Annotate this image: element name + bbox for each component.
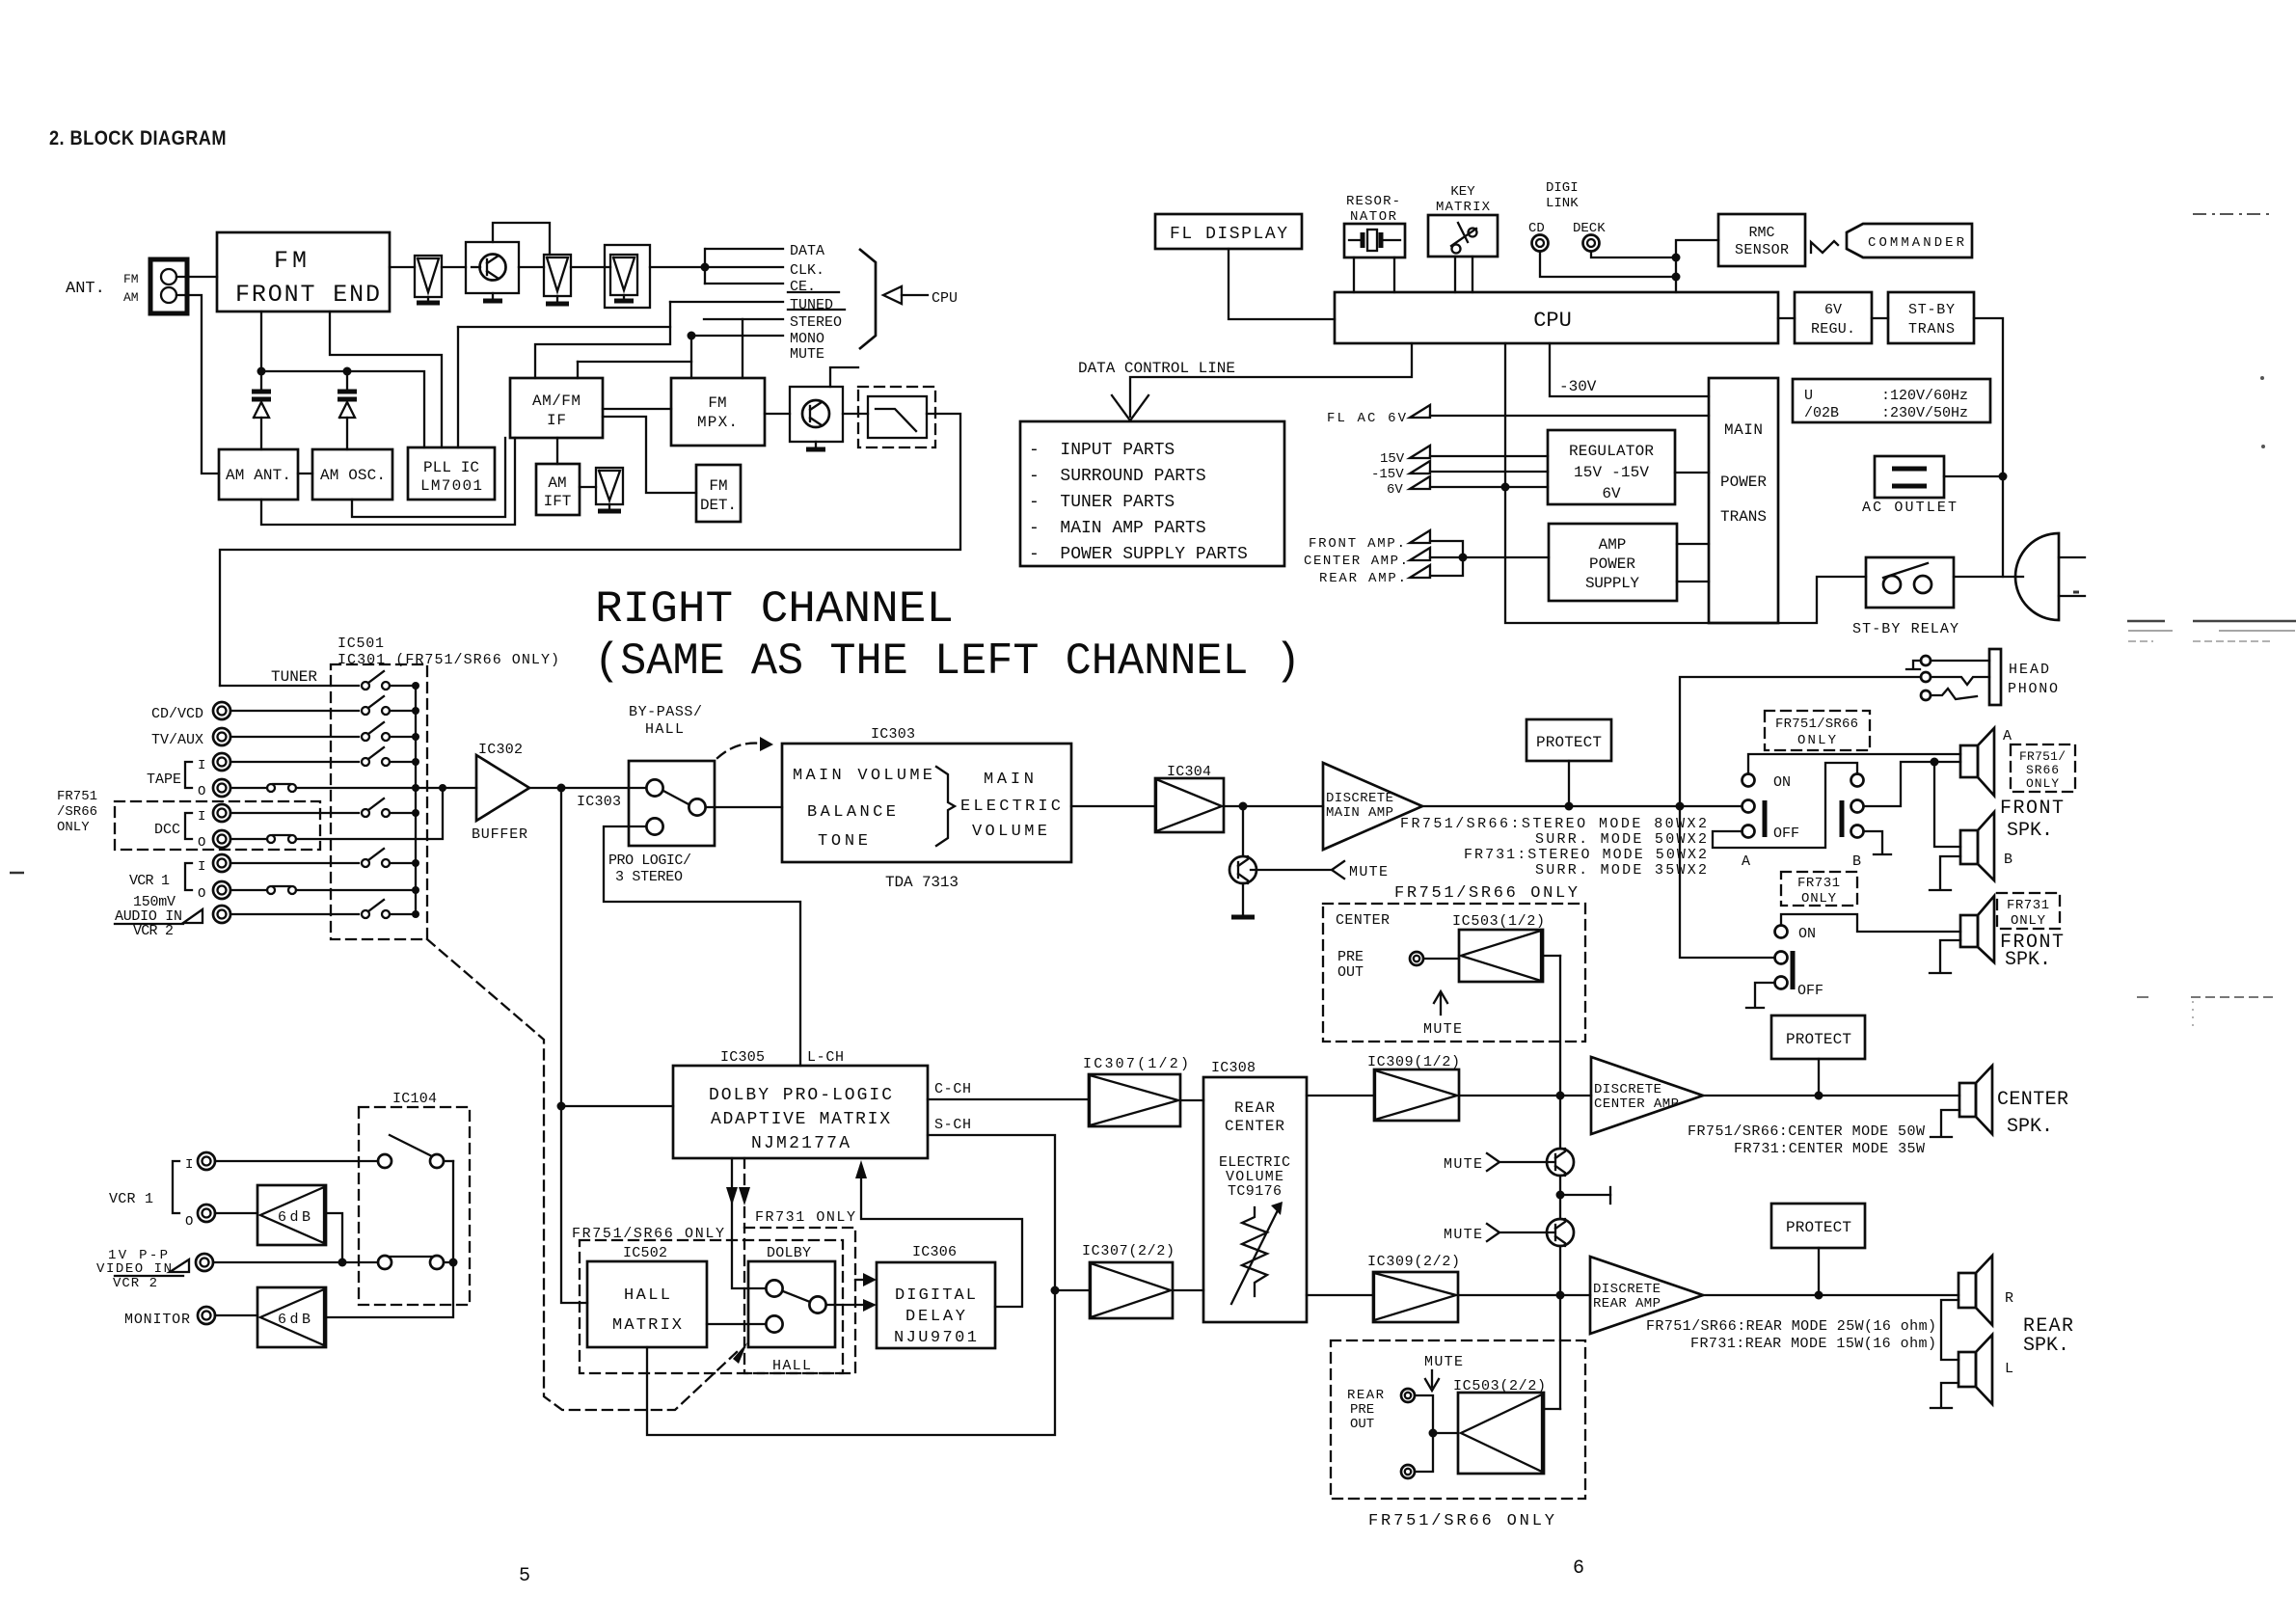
block REGULATOR (1548, 430, 1675, 504)
wire AM ANT to AM OSC link (298, 473, 312, 474)
svg-text:TAPE: TAPE (147, 771, 181, 788)
svg-text:IC305: IC305 (720, 1049, 765, 1066)
varactor D1 (260, 311, 262, 390)
wire vertical DATA-CLK-CE (704, 249, 706, 284)
svg-text:FL DISPLAY: FL DISPLAY (1170, 225, 1287, 244)
svg-text:DOLBY PRO-LOGIC: DOLBY PRO-LOGIC (709, 1086, 892, 1105)
svg-text:IC301 (FR751/SR66 ONLY): IC301 (FR751/SR66 ONLY) (338, 652, 559, 668)
svg-text:PRE: PRE (1337, 949, 1364, 965)
svg-text:CENTER: CENTER (1997, 1089, 2068, 1111)
wire A ON to speaker A (1748, 754, 1960, 773)
svg-text:AMP: AMP (1599, 536, 1627, 554)
antenna connector box (150, 259, 187, 313)
dashed box FR731 (744, 1228, 855, 1373)
ceramic filter F3 (boxed) (605, 245, 650, 308)
wire VCR2 video row (213, 1261, 378, 1263)
svg-text:15V -15V: 15V -15V (1574, 464, 1649, 481)
svg-text:IC307(2/2): IC307(2/2) (1082, 1243, 1175, 1259)
svg-text:MUTE: MUTE (1444, 1227, 1482, 1243)
svg-text:BUFFER: BUFFER (472, 826, 527, 843)
svg-text:ANT.: ANT. (66, 280, 105, 298)
svg-text:FL AC 6V: FL AC 6V (1327, 411, 1407, 426)
wire FR731 ON to speaker (1781, 914, 1960, 932)
svg-text:NATOR: NATOR (1350, 209, 1397, 225)
svg-text:O: O (198, 886, 205, 902)
commander remote (1847, 224, 1972, 257)
svg-text:ONLY: ONLY (1801, 891, 1837, 907)
node video bus junction (338, 1259, 347, 1267)
svg-text:5: 5 (519, 1565, 530, 1587)
block PLL IC LM7001 (408, 447, 495, 500)
wire 6V (1430, 486, 1548, 488)
wire IC303 node down to IC305 and HALL MATRIX (561, 788, 587, 1303)
parts list box (1020, 421, 1284, 566)
svg-text:REAR: REAR (1234, 1099, 1275, 1117)
dashed label box FR731 ONLY (front spk) (1997, 893, 2060, 929)
svg-text:POWER: POWER (1720, 474, 1767, 491)
svg-text:I: I (185, 1157, 193, 1173)
CPU arrow (883, 286, 902, 304)
wire data control line (1130, 343, 1412, 417)
svg-text:IC306: IC306 (912, 1244, 957, 1260)
svg-text:VCR 1: VCR 1 (109, 1191, 153, 1207)
speaker FRONT B (1960, 830, 1978, 864)
wire TUNED stub (670, 301, 783, 303)
svg-text:6dB: 6dB (278, 1209, 311, 1226)
node headphone/front junction (1676, 802, 1685, 811)
svg-text:REGULATOR: REGULATOR (1569, 443, 1654, 460)
switch IC104 upper (378, 1154, 392, 1168)
svg-text:IFT: IFT (544, 493, 572, 510)
svg-text:6: 6 (1573, 1557, 1584, 1580)
svg-text:MAIN: MAIN (1724, 421, 1763, 439)
block AM ANT. (219, 449, 298, 500)
switch IC104 lower (378, 1256, 392, 1269)
switch box BY-PASS/HALL (629, 761, 715, 846)
svg-text:AM: AM (548, 474, 566, 492)
wire MPX to Q2 (765, 413, 790, 415)
svg-text:IC308: IC308 (1211, 1060, 1256, 1076)
svg-text:CENTER: CENTER (1225, 1118, 1284, 1135)
wire VCR1 I video row (215, 1160, 378, 1162)
wire varactor bus to PLL (261, 371, 424, 447)
svg-text:TV/AUX: TV/AUX (151, 732, 203, 748)
svg-text:SENSOR: SENSOR (1735, 242, 1789, 258)
block PROTECT (main) (1526, 719, 1611, 761)
arrowhead data control line (1112, 395, 1148, 420)
svg-text:S-CH: S-CH (934, 1117, 971, 1133)
svg-text:PHONO: PHONO (2008, 681, 2058, 697)
svg-text:FR751/SR66 ONLY: FR751/SR66 ONLY (1394, 884, 1578, 903)
block ST-BY RELAY (1866, 557, 1954, 608)
wire IC303 to IC304 (1071, 805, 1155, 807)
node ac outlet junction (1999, 473, 2008, 481)
dashed wire IC305 to FR731 box (arrow) (743, 1158, 745, 1228)
node MONO junction (688, 332, 696, 340)
svg-text:VCR 1: VCR 1 (129, 873, 170, 889)
resonator X1 box (1344, 224, 1405, 257)
wire R-L speaker link (1941, 1300, 1958, 1360)
wire buffer out (529, 787, 646, 789)
switch DCC I (362, 809, 369, 817)
svg-text:ONLY: ONLY (2011, 913, 2046, 929)
wire IC304 to main amp (1224, 805, 1323, 807)
switch SPEAKERS B (1851, 774, 1864, 787)
svg-text:PROTECT: PROTECT (1786, 1031, 1851, 1048)
svg-text:ST-BY RELAY: ST-BY RELAY (1852, 621, 1958, 637)
svg-text:KEY: KEY (1450, 184, 1475, 200)
wire FM ant to FM FRONT END (176, 276, 217, 278)
wire center amp to speaker (1703, 1095, 1959, 1096)
wire delay feedback to IC305 (arrow) (861, 1178, 1022, 1307)
wire A OFF to B ON (1713, 763, 1857, 848)
key matrix box (1428, 215, 1498, 257)
wire relay to plug (1954, 576, 2023, 578)
transistor mute Q5 (rear) (1547, 1219, 1574, 1246)
block IC308 REAR CENTER ELECTRIC VOLUME TC9176 (1203, 1077, 1307, 1322)
svg-text:6V: 6V (1824, 302, 1842, 318)
label MUTE (main) (1332, 861, 1344, 879)
svg-text:REAR: REAR (1347, 1388, 1385, 1403)
svg-text:HALL: HALL (645, 721, 684, 738)
svg-text:VCR 2: VCR 2 (113, 1276, 157, 1291)
wire TUNER row (220, 685, 359, 687)
wire MONO MUTE stub (691, 335, 783, 337)
wire C-CH (928, 1098, 1089, 1100)
node center line junction (1556, 1092, 1565, 1100)
block FL DISPLAY (1155, 214, 1302, 249)
ceramic filter F4 (596, 468, 623, 504)
svg-text:PROTECT: PROTECT (1536, 734, 1602, 751)
svg-text:L: L (2005, 1361, 2013, 1377)
svg-text:DATA CONTROL LINE: DATA CONTROL LINE (1078, 360, 1235, 377)
wire regulator to trans (1675, 472, 1709, 474)
svg-text:FR751/: FR751/ (2019, 749, 2066, 764)
svg-text:DATA: DATA (790, 243, 824, 259)
svg-text:TUNER: TUNER (271, 668, 317, 686)
wire VCR1 O row with pass contact (230, 889, 267, 891)
wire B common to speakers (1864, 762, 1960, 806)
svg-text:AM ANT.: AM ANT. (226, 467, 291, 484)
svg-text:SPK.: SPK. (2007, 1116, 2053, 1138)
dashed label box FR731 ONLY (switch) (1781, 872, 1857, 906)
speaker FRONT A (1960, 745, 1978, 777)
connector center pre out (1410, 952, 1423, 965)
svg-text:FR731: FR731 (2007, 898, 2049, 913)
svg-text:AC OUTLET: AC OUTLET (1862, 500, 1957, 516)
wire 15V (1430, 455, 1548, 457)
svg-text:MAIN AMP: MAIN AMP (1326, 805, 1393, 821)
node S-CH junction (1051, 1286, 1060, 1295)
block PROTECT (center) (1771, 1015, 1865, 1059)
wire to headphone (1680, 677, 1921, 806)
wire main line down to FR731 switch (1680, 806, 1774, 958)
wire monitor to 6dB (215, 1314, 257, 1316)
connector DCC I (213, 804, 230, 822)
svg-text:PRO LOGIC/: PRO LOGIC/ (608, 853, 691, 869)
wire AC outlet to main feed (1944, 475, 2003, 477)
wire CD to CPU (1540, 252, 1676, 277)
svg-text:AM/FM: AM/FM (532, 392, 581, 410)
connector DECK (1583, 235, 1600, 252)
dashed box center preout (1323, 904, 1585, 1042)
svg-text:DISCRETE: DISCRETE (1326, 791, 1393, 806)
svg-text:HEAD: HEAD (2009, 662, 2049, 678)
switch cd/vcd (362, 707, 369, 715)
svg-text:I: I (198, 809, 205, 825)
potentiometer symbol inside IC308 (1242, 1207, 1267, 1296)
svg-text:B: B (2004, 852, 2012, 868)
svg-text:- SURROUND PARTS: - SURROUND PARTS (1029, 467, 1206, 486)
wire S-CH (928, 1135, 1055, 1290)
svg-text:TRANS: TRANS (1720, 508, 1767, 526)
wire IC503(1/2) output join + mute chain vertical (1559, 956, 1561, 1409)
wire IC309(2/2) to rear amp (1458, 1294, 1590, 1296)
wire HALL MATRIX to switch lower (707, 1323, 766, 1325)
op-amp IC302 buffer (476, 755, 529, 821)
svg-text:MONITOR: MONITOR (124, 1312, 190, 1328)
connector TAPE I (213, 753, 230, 771)
amp DISCRETE CENTER AMP (1591, 1057, 1703, 1134)
wire FR731 OFF to ground (1755, 983, 1774, 1006)
connector VCR1 I (video) (198, 1152, 215, 1170)
svg-text:FR751: FR751 (57, 789, 97, 804)
svg-text:SPK.: SPK. (2007, 820, 2053, 842)
wire FL AC 6V (1430, 415, 1709, 417)
svg-text:6V: 6V (1602, 485, 1621, 502)
svg-text:6V: 6V (1387, 482, 1403, 498)
svg-text:O: O (198, 835, 205, 851)
wire VCR1 O to 6dB (215, 1212, 257, 1214)
wire CPU long vertical (1505, 343, 1866, 623)
node mute tap (1239, 802, 1248, 811)
wire loop Q1 top to F2 top (493, 223, 550, 255)
svg-text::120V/60Hz: :120V/60Hz (1881, 388, 1968, 404)
wire front amp (1430, 541, 1463, 557)
svg-text:STEREO: STEREO (790, 314, 842, 331)
svg-text:REAR AMP: REAR AMP (1593, 1296, 1661, 1312)
svg-text:ST-BY: ST-BY (1908, 302, 1955, 318)
wire IC308 center out (1307, 1095, 1374, 1096)
svg-text:FM: FM (708, 394, 726, 412)
svg-text:HALL: HALL (772, 1358, 811, 1374)
block FM MPX. (671, 378, 765, 446)
connector MONITOR (198, 1307, 215, 1324)
connector CD/VCD (213, 702, 230, 719)
svg-text:O: O (185, 1214, 193, 1230)
svg-text:MPX.: MPX. (697, 414, 738, 431)
wire 6dB out to video bus (326, 1213, 342, 1262)
svg-text:6dB: 6dB (278, 1312, 311, 1328)
svg-text:OUT: OUT (1337, 964, 1364, 981)
svg-text:FR751/SR66:REAR MODE 25W(16 oh: FR751/SR66:REAR MODE 25W(16 ohm) (1646, 1318, 1936, 1335)
wire TAPE I row (230, 761, 359, 763)
svg-text:SPK.: SPK. (2023, 1335, 2069, 1357)
connector VCR1 I (213, 854, 230, 872)
svg-text:OFF: OFF (1797, 983, 1823, 999)
wire F1 to Q1 (442, 266, 466, 268)
svg-text:LINK: LINK (1546, 196, 1579, 211)
wires rear preout connectors (1415, 1395, 1433, 1472)
wire DECK to CPU (1591, 252, 1676, 257)
amp DISCRETE MAIN AMP (1323, 763, 1422, 850)
wire B OFF to ground (1864, 831, 1882, 853)
svg-text:COMMANDER: COMMANDER (1868, 235, 1965, 251)
de-emphasis dashed box (858, 387, 935, 447)
svg-text:POWER: POWER (1589, 555, 1635, 573)
svg-text:CPU: CPU (1533, 309, 1572, 333)
switch FR731 front spk (1775, 926, 1788, 938)
wires resonator to CPU (1353, 257, 1355, 292)
ground speaker B (1940, 856, 1960, 888)
wires key matrix to CPU (1454, 257, 1456, 292)
node IC303 feed junction (557, 784, 566, 793)
block 6V REGU. (1795, 292, 1872, 343)
antenna FM terminal (161, 269, 176, 284)
wire STEREO stub (704, 318, 783, 320)
wire dolby switch to delay (arrow) (826, 1304, 862, 1306)
svg-text:IC302: IC302 (478, 742, 523, 758)
wire IF to FM DET (603, 417, 696, 493)
svg-text:-15V: -15V (1371, 467, 1404, 482)
svg-text:TC9176: TC9176 (1228, 1183, 1282, 1200)
svg-text:B: B (1852, 853, 1861, 870)
scan artifacts (2193, 213, 2270, 215)
transistor mute Q3 (1242, 806, 1244, 856)
transistor mute Q4 (center) (1547, 1149, 1574, 1176)
antenna AM terminal (161, 287, 176, 303)
svg-text:I: I (198, 758, 205, 773)
wire FM FE bottom to PLL (330, 311, 442, 447)
svg-text:ON: ON (1798, 926, 1816, 942)
svg-text:DELAY: DELAY (905, 1308, 965, 1326)
svg-text:TUNED: TUNED (790, 297, 833, 313)
op-amp IC503(1/2) (1423, 958, 1459, 960)
svg-text:AM OSC.: AM OSC. (320, 467, 386, 484)
ground under Q1 (492, 293, 494, 300)
block IC305 DOLBY PRO-LOGIC NJM2177A (673, 1066, 928, 1158)
svg-text:PLL IC: PLL IC (423, 459, 479, 476)
svg-text:U: U (1804, 388, 1813, 404)
block IC306 DIGITAL DELAY NJU9701 (877, 1262, 995, 1348)
block FM FRONT END (217, 232, 390, 311)
varactor D2 (346, 371, 348, 390)
wire rear amp to speaker (1703, 1294, 1958, 1296)
block CPU (1335, 292, 1778, 343)
connector VCR2 (213, 906, 230, 923)
svg-text:VIDEO IN: VIDEO IN (96, 1261, 172, 1277)
transistor Q1 (RF amp) box (466, 242, 519, 293)
selector dashed box IC501/IC301 (331, 664, 427, 939)
svg-text:OFF: OFF (1773, 826, 1799, 842)
svg-text:ONLY: ONLY (2026, 776, 2059, 791)
wire AM ant down to AM ANT block (176, 295, 219, 474)
wire TV/AUX row (230, 736, 359, 738)
svg-text:IC104: IC104 (392, 1091, 437, 1107)
dashed label box FR751/SR66 ONLY (front spk) (2011, 744, 2075, 792)
wire F2 to F3 (571, 266, 610, 268)
svg-text:FR731:CENTER MODE 35W: FR731:CENTER MODE 35W (1734, 1141, 1925, 1157)
dashed box rear preout (1331, 1340, 1585, 1499)
wire IC307(1/2) to IC308 (1180, 1099, 1203, 1101)
op-amp IC307(2/2) (1090, 1262, 1173, 1318)
block AM OSC. (312, 449, 392, 500)
svg-text:IC501: IC501 (338, 636, 384, 652)
IR zigzag (1811, 241, 1838, 253)
svg-text:VCR 2: VCR 2 (133, 923, 174, 939)
block AMP POWER SUPPLY (1549, 524, 1677, 601)
svg-text:IC303: IC303 (577, 794, 621, 810)
svg-text:A: A (1742, 853, 1750, 870)
ground FR731 speaker (1940, 940, 1960, 971)
connector VCR1 O (video) (198, 1204, 215, 1222)
svg-text:(SAME AS THE LEFT CHANNEL ): (SAME AS THE LEFT CHANNEL ) (594, 636, 1301, 687)
svg-text:IC309(2/2): IC309(2/2) (1367, 1254, 1460, 1270)
wire MONO to FM MPX (690, 336, 692, 378)
selector output bus (415, 686, 417, 914)
switch tuner (362, 682, 369, 690)
svg-text:L-CH: L-CH (807, 1049, 844, 1066)
arrow MUTE (center preout) (1440, 993, 1442, 1015)
dashed arrow bypass to IC303 (717, 744, 762, 758)
transistor Q2 (mpx out) box (790, 387, 843, 442)
svg-text:SPK.: SPK. (2005, 949, 2051, 971)
svg-text:I: I (198, 859, 205, 875)
speaker REAR L (1958, 1352, 1976, 1387)
block AM IFT (536, 464, 580, 515)
node monitor junction (449, 1259, 458, 1267)
ground speaker L (1941, 1383, 1958, 1406)
wire DCC I row (230, 812, 359, 814)
svg-text:A: A (2003, 728, 2012, 744)
wire Q1 to filter2 (519, 266, 544, 268)
wire rear amp (1430, 557, 1463, 576)
svg-text:DET.: DET. (700, 497, 737, 514)
svg-text:DIGITAL: DIGITAL (895, 1286, 976, 1305)
svg-text:REGU.: REGU. (1811, 321, 1855, 338)
wire Q2 to de-emphasis (843, 413, 868, 415)
dashed label box FR751/SR66 ONLY (speaker switch) (1765, 711, 1870, 750)
node 6V junction (1501, 483, 1510, 492)
svg-text:FRONT: FRONT (2000, 798, 2064, 820)
flag FL AC 6V (1410, 405, 1430, 418)
block IC303 TDA7313 (782, 744, 1071, 862)
wire 6V REGU to ST-BY TRANS (1872, 317, 1888, 319)
connector TV/AUX (213, 728, 230, 745)
wire RMC sensor to CPU (1676, 240, 1718, 292)
wire protect to line (1568, 761, 1570, 806)
svg-text:- TUNER PARTS: - TUNER PARTS (1029, 493, 1175, 512)
connector TAPE O (213, 779, 230, 797)
wire FM FE out to filter1 (390, 266, 415, 268)
svg-text:FR751/SR66 ONLY: FR751/SR66 ONLY (1368, 1512, 1554, 1530)
wire HALL MATRIX bottom to IC307(2/2) node (647, 1290, 1055, 1435)
wire bypass lower circle to L-CH (604, 826, 800, 1066)
svg-text:RESOR-: RESOR- (1346, 194, 1400, 209)
svg-text::230V/50Hz: :230V/50Hz (1881, 405, 1968, 421)
node varactor bus dots (257, 367, 266, 376)
svg-text:- POWER SUPPLY PARTS: - POWER SUPPLY PARTS (1029, 545, 1248, 564)
ceramic filter F2 (544, 255, 571, 296)
de-emphasis filter box (868, 396, 927, 438)
svg-text:-30V: -30V (1559, 378, 1597, 395)
svg-text:AM: AM (123, 290, 139, 305)
svg-text:REAR AMP.: REAR AMP. (1319, 571, 1406, 586)
svg-text:CLK.: CLK. (790, 262, 824, 279)
svg-text:/SR66: /SR66 (57, 804, 97, 820)
svg-text:ON: ON (1773, 774, 1791, 791)
wire VCR1 I row (230, 862, 359, 864)
